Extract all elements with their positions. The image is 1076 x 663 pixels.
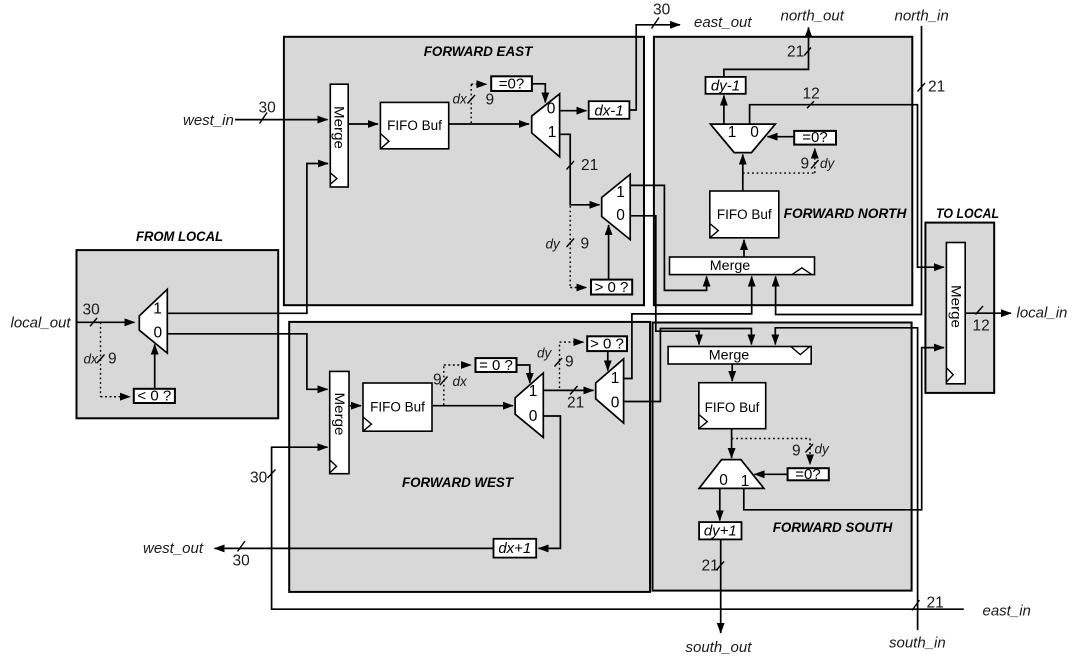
svg-text:0: 0 xyxy=(719,472,728,489)
svg-text:21: 21 xyxy=(567,395,584,412)
svg-text:21: 21 xyxy=(928,79,945,96)
svg-text:south_out: south_out xyxy=(686,639,753,656)
svg-text:9: 9 xyxy=(792,443,801,460)
svg-text:local_in: local_in xyxy=(1017,305,1068,322)
svg-text:dx: dx xyxy=(453,374,469,389)
svg-text:dy+1: dy+1 xyxy=(704,522,737,539)
svg-text:north_in: north_in xyxy=(895,8,949,25)
svg-text:< 0 ?: < 0 ? xyxy=(137,388,171,405)
svg-text:east_out: east_out xyxy=(694,14,752,31)
svg-text:9: 9 xyxy=(486,92,495,109)
svg-text:dx: dx xyxy=(453,92,469,107)
svg-text:=0?: =0? xyxy=(802,129,827,146)
svg-text:FIFO Buf: FIFO Buf xyxy=(370,400,425,415)
svg-text:dy: dy xyxy=(815,442,831,457)
svg-text:FORWARD SOUTH: FORWARD SOUTH xyxy=(773,520,893,536)
svg-text:0: 0 xyxy=(153,324,162,341)
svg-text:30: 30 xyxy=(250,470,268,487)
svg-text:FIFO Buf: FIFO Buf xyxy=(387,118,442,133)
svg-text:=0?: =0? xyxy=(795,466,820,483)
svg-text:dy: dy xyxy=(546,237,562,252)
svg-text:21: 21 xyxy=(581,157,598,174)
svg-text:south_in: south_in xyxy=(889,635,946,652)
svg-text:FROM LOCAL: FROM LOCAL xyxy=(136,229,223,245)
svg-text:= 0 ?: = 0 ? xyxy=(479,357,513,374)
svg-text:Merge: Merge xyxy=(332,393,348,436)
svg-text:1: 1 xyxy=(611,370,620,387)
svg-text:FIFO Buf: FIFO Buf xyxy=(717,207,772,222)
svg-text:Merge: Merge xyxy=(710,257,751,273)
svg-text:Merge: Merge xyxy=(332,106,348,149)
svg-text:dx-1: dx-1 xyxy=(594,102,623,119)
svg-text:9: 9 xyxy=(433,372,442,389)
svg-text:> 0 ?: > 0 ? xyxy=(590,335,624,352)
svg-text:9: 9 xyxy=(108,351,117,368)
svg-text:local_out: local_out xyxy=(11,315,72,332)
svg-text:9: 9 xyxy=(801,156,810,173)
svg-text:30: 30 xyxy=(259,100,277,117)
svg-text:30: 30 xyxy=(653,2,671,19)
svg-text:=0?: =0? xyxy=(499,76,524,93)
svg-text:> 0 ?: > 0 ? xyxy=(595,279,629,296)
svg-text:9: 9 xyxy=(565,354,574,371)
svg-text:east_in: east_in xyxy=(983,603,1031,620)
svg-text:FORWARD WEST: FORWARD WEST xyxy=(402,475,514,491)
svg-text:1: 1 xyxy=(741,473,750,490)
svg-text:1: 1 xyxy=(153,300,162,317)
svg-text:dy-1: dy-1 xyxy=(711,77,740,94)
svg-text:FORWARD NORTH: FORWARD NORTH xyxy=(784,206,907,222)
svg-text:0: 0 xyxy=(750,124,759,141)
svg-text:Merge: Merge xyxy=(948,285,964,328)
svg-text:dy: dy xyxy=(537,346,553,361)
svg-text:21: 21 xyxy=(787,44,804,61)
svg-text:FIFO Buf: FIFO Buf xyxy=(705,400,760,415)
svg-text:9: 9 xyxy=(581,236,590,253)
svg-text:dx+1: dx+1 xyxy=(498,540,531,557)
svg-text:0: 0 xyxy=(529,408,538,425)
svg-text:FORWARD EAST: FORWARD EAST xyxy=(424,44,534,60)
svg-text:21: 21 xyxy=(927,595,944,612)
svg-text:12: 12 xyxy=(803,86,820,103)
svg-text:12: 12 xyxy=(973,318,990,335)
svg-text:north_out: north_out xyxy=(781,8,845,25)
svg-text:0: 0 xyxy=(547,101,556,118)
svg-text:1: 1 xyxy=(529,383,538,400)
svg-text:TO LOCAL: TO LOCAL xyxy=(936,206,999,222)
svg-text:1: 1 xyxy=(548,124,557,141)
svg-text:dx: dx xyxy=(84,352,100,367)
svg-text:1: 1 xyxy=(616,184,625,201)
svg-text:30: 30 xyxy=(83,302,101,319)
svg-text:dy: dy xyxy=(820,156,836,171)
svg-text:west_in: west_in xyxy=(183,112,234,129)
svg-text:1: 1 xyxy=(728,124,737,141)
svg-text:Merge: Merge xyxy=(709,347,750,363)
svg-text:0: 0 xyxy=(611,394,620,411)
svg-text:0: 0 xyxy=(616,207,625,224)
svg-text:21: 21 xyxy=(702,558,719,575)
svg-text:west_out: west_out xyxy=(143,540,204,557)
svg-text:30: 30 xyxy=(233,553,251,570)
